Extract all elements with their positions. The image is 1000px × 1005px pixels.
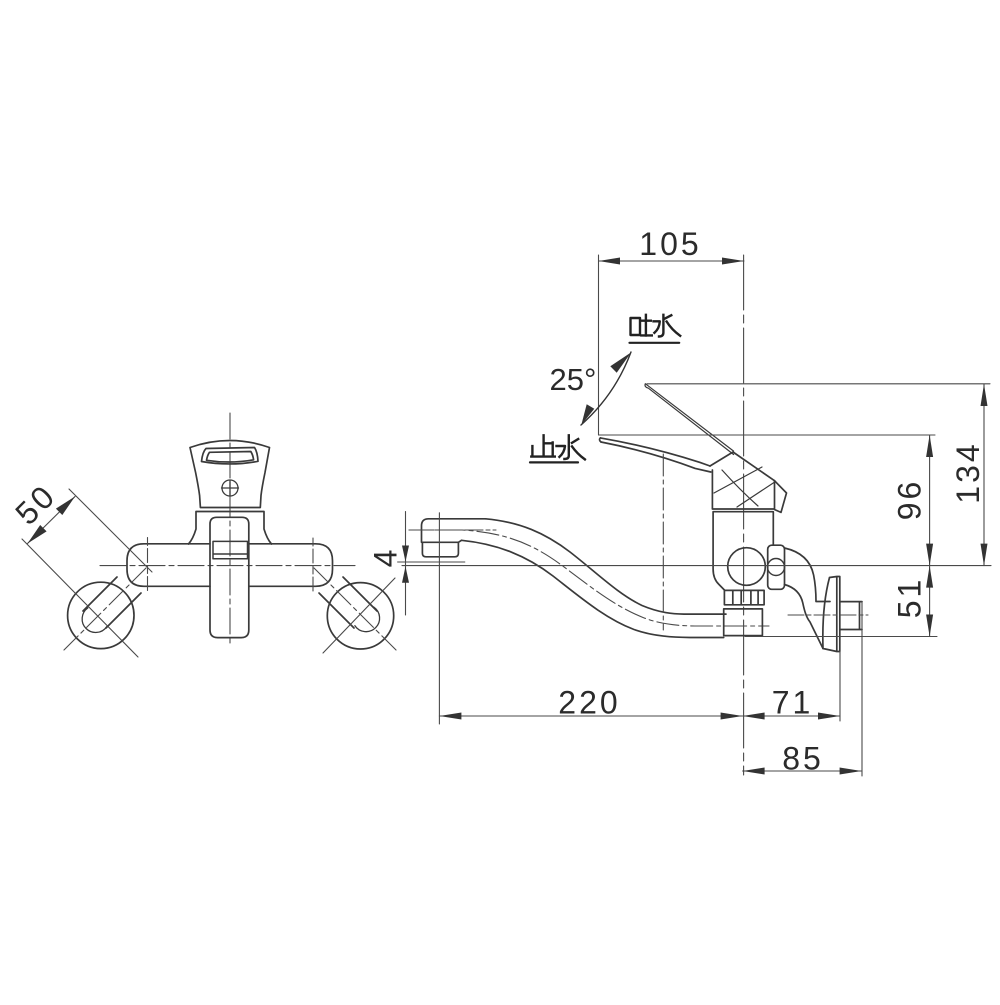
spout outlet nozzle bbox=[422, 542, 458, 557]
svg-text:220: 220 bbox=[558, 685, 620, 721]
dimension line 96 bbox=[929, 435, 931, 566]
arrow 71 left bbox=[743, 713, 765, 720]
cartridge body side view bbox=[713, 512, 773, 590]
svg-text:25°: 25° bbox=[550, 362, 597, 397]
front view vertical centerline bbox=[229, 413, 231, 645]
right arm junction tick bbox=[312, 538, 314, 592]
svg-text:4: 4 bbox=[368, 547, 404, 568]
lever crease bbox=[710, 452, 775, 481]
DIMENSIONS (thin lines) bbox=[28, 255, 992, 776]
lever up position phantom bbox=[645, 384, 734, 455]
arrow 220 left bbox=[439, 713, 461, 720]
body top section front bbox=[189, 512, 272, 545]
extension line lever-up top horizontal bbox=[647, 383, 990, 385]
extension line 71/85 flange face bbox=[839, 652, 841, 722]
arrow 85 left bbox=[743, 768, 765, 775]
svg-text:134: 134 bbox=[950, 441, 986, 503]
side view vertical axis centerline bbox=[743, 255, 745, 775]
left wall flange outer circle bbox=[68, 582, 134, 648]
spout tube top edge bbox=[486, 519, 726, 614]
lever down position top edge bbox=[600, 438, 710, 466]
left arm junction tick bbox=[147, 538, 149, 593]
arrow swing lower bbox=[581, 404, 594, 425]
arrow 50 upper bbox=[56, 497, 75, 516]
arrow 4 upper bbox=[402, 546, 409, 562]
cartridge box band bbox=[213, 541, 248, 558]
wall escutcheon flange bbox=[823, 577, 840, 652]
arrow 51 bottom bbox=[926, 615, 933, 637]
arrow 134 bottom bbox=[981, 544, 988, 566]
arrow 105 right bbox=[722, 258, 744, 265]
left flange diagonal centerline bbox=[22, 539, 138, 657]
reference line spout center bbox=[402, 565, 991, 567]
arrowheads bbox=[28, 258, 988, 775]
extension line 4 nozzle bottom bbox=[398, 561, 465, 563]
wall pipe centerline bbox=[788, 614, 868, 616]
spout nut bbox=[724, 590, 764, 604]
kanji 水 (tosui word part 2) bbox=[654, 315, 681, 337]
svg-text:85: 85 bbox=[782, 741, 824, 777]
right wall flange inner circle bbox=[355, 607, 380, 632]
kanji 水 (shisui word part 2) bbox=[557, 435, 585, 459]
handle slot outer bbox=[202, 448, 259, 464]
kanji underline 吐水 bbox=[630, 342, 680, 344]
arm bar front bbox=[127, 544, 333, 587]
extension line 50 upper bbox=[69, 489, 152, 572]
right wall flange outer circle bbox=[327, 583, 393, 649]
spout connector box bbox=[724, 609, 763, 636]
extension line 51 bottom bbox=[745, 636, 937, 638]
left wall flange inner circle bbox=[82, 608, 107, 633]
ball joint bbox=[728, 548, 766, 586]
arrow 96 top bbox=[926, 435, 933, 457]
right leg tube bbox=[319, 577, 377, 628]
arrow swing upper bbox=[610, 352, 631, 372]
arrow 220 right bbox=[721, 713, 743, 720]
kanji 吐 (tosui word part 1) bbox=[631, 315, 652, 336]
dimension line 50 bbox=[28, 497, 76, 544]
arrow 134 top bbox=[981, 384, 988, 406]
lever hood left edge bbox=[711, 470, 713, 509]
right flange diagonal centerline bbox=[323, 578, 395, 653]
svg-text:50: 50 bbox=[8, 477, 63, 532]
wall elbow inner bbox=[785, 585, 824, 649]
spout outlet centerline bbox=[409, 529, 496, 531]
dimension line 134 bbox=[983, 384, 985, 566]
spout swing axis centerline bbox=[662, 454, 664, 630]
left leg axis centerline bbox=[62, 568, 146, 652]
dimension line 85 bbox=[743, 770, 862, 772]
extension line 220 left bbox=[438, 513, 440, 724]
lever tail bbox=[775, 481, 787, 513]
dimension line 4 stem bbox=[405, 512, 407, 616]
spout tube centerline bbox=[409, 530, 769, 626]
svg-text:96: 96 bbox=[892, 479, 928, 521]
arrow 71 right bbox=[818, 713, 840, 720]
svg-text:51: 51 bbox=[892, 577, 928, 619]
side boss ring bbox=[768, 545, 785, 589]
dimension line 51 bbox=[929, 566, 931, 637]
extension line 105 left bbox=[598, 255, 600, 435]
handle outer outline bbox=[190, 441, 270, 508]
arrow 50 lower bbox=[28, 525, 47, 544]
extension line lever-down tip horizontal bbox=[599, 434, 936, 436]
dimension texts bbox=[8, 226, 986, 777]
arrow 105 left bbox=[599, 258, 621, 265]
left leg tube bbox=[83, 577, 141, 628]
front view horizontal centerline bbox=[100, 565, 355, 567]
boss screw bbox=[768, 559, 785, 576]
arrow 4 lower bbox=[402, 566, 409, 582]
dimension line 220-71 bbox=[439, 715, 840, 717]
kanji underline 止水 bbox=[530, 461, 578, 463]
arrow 85 right bbox=[840, 768, 862, 775]
lever down tip cap bbox=[599, 438, 601, 442]
lever down position bottom edge bbox=[601, 442, 711, 472]
arrow 51 top bbox=[926, 566, 933, 588]
extension line 85 wall face bbox=[861, 602, 863, 776]
kanji 止 (shisui word part 1) bbox=[531, 435, 555, 456]
svg-text:71: 71 bbox=[772, 685, 814, 721]
wall pipe connector bbox=[840, 602, 862, 630]
handle slot inner bbox=[207, 452, 254, 463]
lever hood bottom bbox=[712, 481, 774, 510]
svg-text:105: 105 bbox=[639, 226, 701, 262]
arrow 96 bottom bbox=[926, 544, 933, 566]
dimension line 105 bbox=[599, 260, 745, 262]
lever swing arc arrow bbox=[581, 352, 631, 425]
handle screw symbol bbox=[222, 480, 238, 496]
right leg axis centerline bbox=[314, 568, 398, 652]
cartridge box front bbox=[210, 517, 249, 637]
spout outlet head bbox=[422, 519, 486, 543]
wall elbow outer bbox=[785, 548, 831, 602]
spout tube bottom edge bbox=[462, 540, 724, 637]
lever hood inner creases bbox=[714, 467, 776, 507]
